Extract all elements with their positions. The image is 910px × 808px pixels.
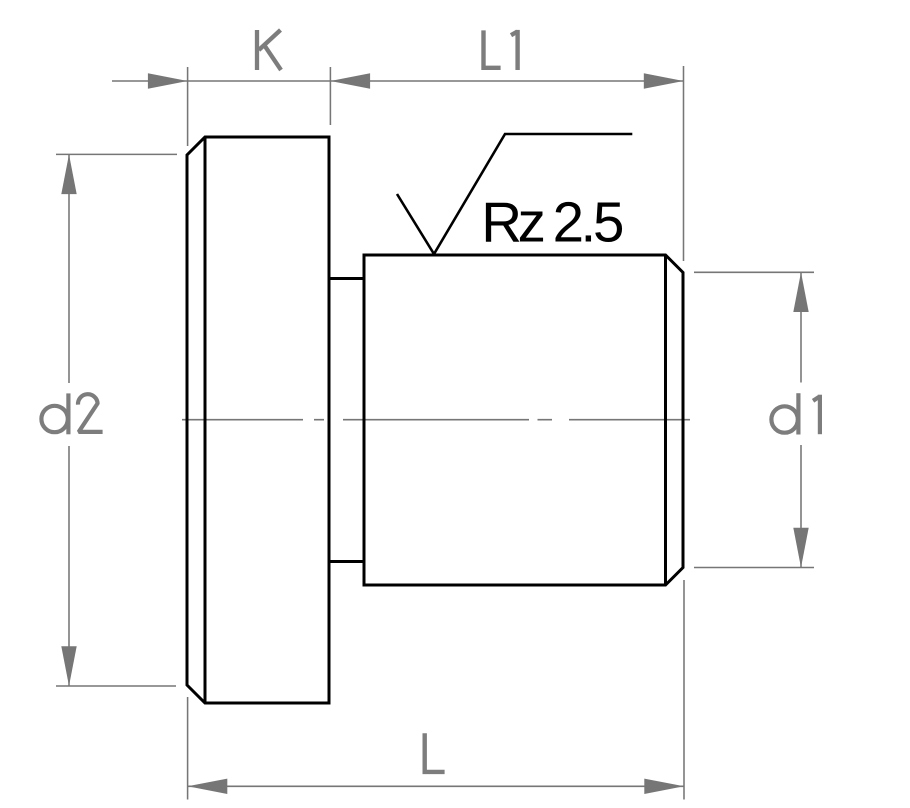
d1 extension line bottom	[694, 567, 814, 569]
L dimension line	[188, 785, 684, 787]
d1 dimension line lower	[800, 445, 802, 568]
d2 extension line top	[56, 153, 177, 155]
L extension line right	[683, 580, 685, 800]
arrow d1 top	[793, 272, 808, 312]
arrow d1 bottom	[793, 528, 808, 568]
arrow L left	[188, 779, 228, 794]
label d2	[41, 393, 102, 434]
d1 dimension line upper	[800, 272, 802, 382]
svg-text:Rz 2.5: Rz 2.5	[481, 191, 624, 254]
extension line L1 right	[683, 66, 685, 261]
head outline (flange, left body)	[187, 137, 329, 703]
label L	[425, 733, 445, 772]
extension line K right	[329, 67, 331, 125]
d2 dimension line upper	[68, 154, 70, 383]
shaft outline (cylinder d1)	[364, 255, 683, 585]
arrow K left	[148, 73, 188, 88]
top dimension line (K and L1)	[112, 80, 684, 82]
arrow d2 top	[61, 154, 76, 194]
label K	[257, 30, 281, 70]
extension line K left	[187, 67, 189, 146]
arrow L right	[644, 779, 684, 794]
d2 dimension line lower	[68, 446, 70, 686]
shaft chamfer edge line	[664, 255, 667, 585]
head chamfer edge line	[204, 137, 207, 703]
L extension line left	[187, 697, 189, 800]
neck line bottom	[329, 560, 364, 563]
centerline (dash-dot axis)	[182, 419, 690, 421]
neck line top	[329, 277, 364, 280]
arrow d2 bottom	[61, 646, 76, 686]
d2 extension line bottom	[56, 685, 176, 687]
arrow K right / L1 left	[330, 73, 370, 88]
arrow L1 right	[644, 73, 684, 88]
label L1	[484, 30, 501, 67]
label d1	[771, 393, 798, 434]
d1 extension line top	[694, 271, 814, 273]
surface roughness symbol (check mark)	[397, 134, 632, 254]
